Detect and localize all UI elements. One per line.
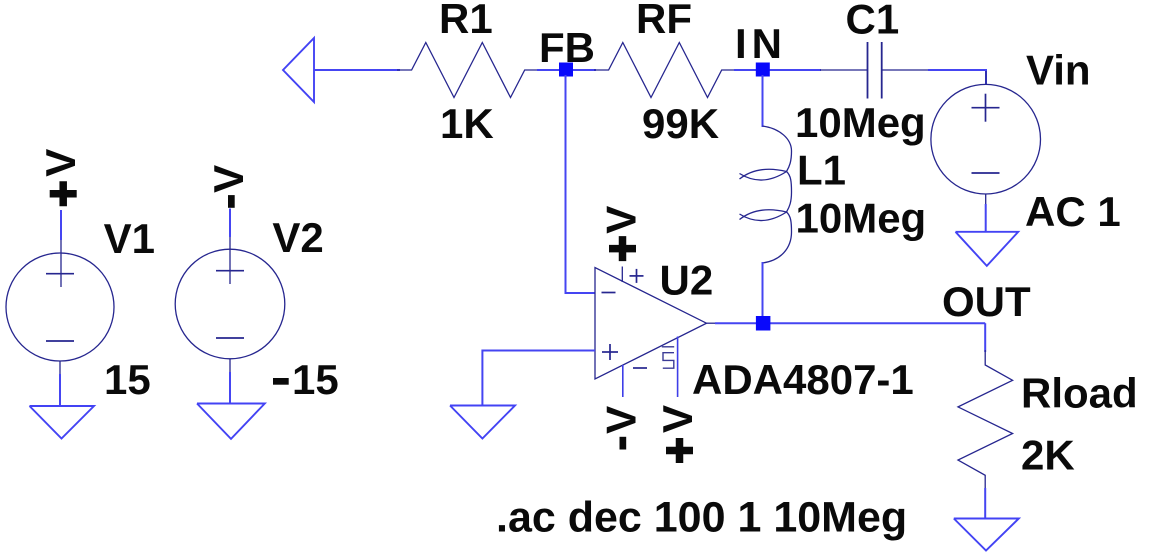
- svg-text:.ac dec 100 1 10Meg: .ac dec 100 1 10Meg: [496, 494, 907, 542]
- svg-text:V: V: [205, 165, 252, 193]
- op-amp U2 V+ power marker (+): [630, 269, 644, 283]
- pin number 5 with overbar (power-down pin): [662, 347, 674, 368]
- node FB (junction square): [559, 63, 573, 77]
- capacitor C1: [820, 42, 930, 99]
- svg-text:99K: 99K: [642, 100, 719, 147]
- svg-text:15: 15: [292, 356, 339, 403]
- node IN (junction square): [756, 63, 770, 77]
- svg-text:V: V: [598, 406, 645, 434]
- wire (V2 bottom pin to ground): [229, 372, 231, 404]
- net flag V+ above V1 (plus sign): [50, 181, 77, 206]
- svg-text:Vin: Vin: [1026, 47, 1091, 94]
- ground (below U2 non-inverting input): [450, 406, 515, 439]
- svg-text:L1: L1: [797, 147, 846, 194]
- ground (below V2): [197, 404, 265, 439]
- net flag V- above V2 (minus sign, rotated): [228, 195, 235, 208]
- wire (V1 bottom pin to ground): [59, 374, 61, 406]
- wire (RF to C1 through node IN): [734, 69, 821, 71]
- wire (ground flag to R1): [314, 69, 400, 71]
- svg-text:2K: 2K: [1021, 432, 1075, 479]
- wire (node IN down to inductor L1): [762, 75, 764, 127]
- net flag V+ above V1 (rotated V glyph): [37, 149, 84, 177]
- svg-text:AC 1: AC 1: [1025, 188, 1121, 235]
- voltage source V2 (circle body and pin leads): [175, 236, 285, 374]
- op-amp U2 non-inverting input marker (+): [602, 344, 618, 360]
- ground flag (rotated, pointing left, at left end of R1 wire): [283, 38, 314, 102]
- wire (V1 top pin to net flag V+): [60, 210, 62, 240]
- op-amp U2 (triangle body): [595, 268, 707, 380]
- resistor Rload: [958, 350, 1013, 490]
- inductor L1 (coil): [740, 126, 792, 263]
- svg-text:R1: R1: [439, 0, 493, 42]
- svg-text:V1: V1: [104, 215, 155, 262]
- svg-text:IN: IN: [735, 20, 787, 67]
- svg-text:10Meg: 10Meg: [796, 195, 927, 242]
- net flag V- below U2 bottom power pin (minus sign, rotated): [620, 437, 627, 450]
- svg-text:FB: FB: [539, 24, 595, 71]
- net flag V+ below U2 pin 5 (plus sign): [666, 438, 693, 463]
- Vin polarity marks (+ top, - bottom): [972, 94, 1000, 173]
- ground (below Rload): [954, 519, 1019, 551]
- ground (below Vin): [956, 232, 1019, 266]
- wire (U2 output to Rload corner, net OUT): [715, 322, 985, 324]
- op-amp U2 V+ power pin stub (top): [621, 267, 623, 283]
- op-amp U2 inverting input marker (-): [602, 292, 616, 294]
- op-amp U2 V- power pin stub (bottom): [622, 365, 624, 397]
- V2 polarity marks (+ top, - bottom): [216, 271, 244, 338]
- wire (node FB down to U2 inverting input): [566, 75, 596, 293]
- ground (below V1): [30, 406, 95, 439]
- op-amp U2 V- power marker (-): [633, 367, 647, 369]
- svg-text:V: V: [37, 149, 84, 177]
- op-amp U2 output pin stub: [707, 322, 719, 324]
- svg-text:1K: 1K: [440, 100, 494, 147]
- wire (Vin bottom to ground): [985, 204, 987, 232]
- svg-text:15: 15: [104, 356, 151, 403]
- svg-text:C1: C1: [846, 0, 900, 43]
- voltage source V1 (circle body and pin leads): [6, 239, 114, 376]
- wire (Rload to ground): [984, 488, 986, 519]
- resistor R1: [397, 43, 539, 98]
- net flag V+ below U2 pin 5 (rotated V glyph): [654, 405, 701, 433]
- wire (L1 bottom to output node): [762, 262, 764, 323]
- net flag V- below U2 bottom power pin (rotated V glyph): [598, 406, 645, 434]
- wire (V2 top pin to net flag V-): [229, 209, 231, 238]
- svg-text:10Meg: 10Meg: [795, 99, 926, 146]
- wire (C1 to Vin top): [928, 70, 986, 85]
- voltage source Vin (circle body and pin leads): [931, 71, 1041, 206]
- value label -15 (V2): minus sign: [273, 378, 289, 385]
- wire (U2 non-inverting input to ground): [482, 351, 595, 406]
- svg-text:U2: U2: [660, 257, 714, 304]
- svg-text:V: V: [654, 405, 701, 433]
- wire (R1 to RF through node FB): [537, 69, 596, 71]
- wire (corner down to Rload): [984, 323, 986, 352]
- node OUT (junction square at U2 output): [756, 316, 771, 331]
- svg-text:V2: V2: [272, 214, 323, 261]
- svg-text:RF: RF: [636, 0, 692, 42]
- net flag V+ above U2 top power pin (plus sign): [609, 236, 636, 261]
- V1 polarity marks (+ top, - bottom): [46, 274, 74, 341]
- op-amp U2 power-down pin 5 stub (bottom right): [677, 337, 679, 398]
- svg-text:Rload: Rload: [1021, 370, 1138, 417]
- svg-text:OUT: OUT: [942, 278, 1031, 325]
- net flag V+ above U2 top power pin (rotated V glyph): [597, 206, 644, 234]
- svg-text:ADA4807-1: ADA4807-1: [692, 356, 914, 403]
- net flag V- above V2 (rotated V glyph): [205, 165, 252, 193]
- svg-text:V: V: [597, 206, 644, 234]
- resistor RF: [594, 43, 736, 98]
